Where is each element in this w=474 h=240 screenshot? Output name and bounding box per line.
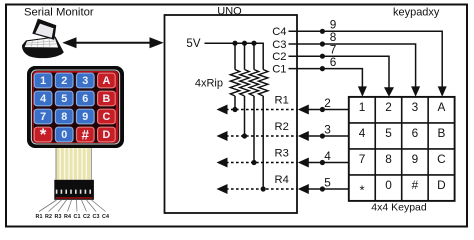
svg-text:6: 6 [82,93,88,105]
svg-text:C4: C4 [102,214,109,220]
svg-text:9: 9 [82,111,88,123]
svg-text:*: * [40,125,47,144]
svg-text:R1: R1 [275,95,289,107]
svg-text:5: 5 [61,93,67,105]
svg-text:C2: C2 [272,51,286,63]
svg-text:6: 6 [412,126,419,140]
svg-text:1: 1 [359,100,366,114]
svg-text:A: A [102,75,110,87]
svg-text:3: 3 [82,75,88,87]
svg-text:1: 1 [40,75,46,87]
svg-text:3: 3 [324,123,331,137]
svg-text:C: C [437,152,446,166]
svg-text:R4: R4 [64,214,71,220]
svg-text:4: 4 [324,149,331,163]
svg-text:4xRip: 4xRip [195,78,223,90]
svg-text:*: * [359,182,364,197]
svg-text:C: C [102,111,110,123]
svg-text:4: 4 [359,126,366,140]
svg-text:2: 2 [61,75,67,87]
svg-text:6: 6 [330,55,337,69]
svg-text:#: # [82,127,90,142]
svg-text:5V: 5V [186,38,200,50]
svg-text:C1: C1 [272,64,286,76]
svg-text:9: 9 [412,152,419,166]
svg-text:keypadxy: keypadxy [393,7,440,19]
svg-text:A: A [437,100,445,114]
svg-text:2: 2 [324,96,331,110]
svg-text:D: D [437,178,446,192]
svg-text:R2: R2 [275,121,289,133]
svg-text:3: 3 [412,100,419,114]
svg-text:0: 0 [385,178,392,192]
svg-text:7: 7 [40,111,46,123]
svg-text:C1: C1 [74,214,81,220]
svg-text:5: 5 [324,176,331,190]
svg-text:R3: R3 [55,214,62,220]
svg-text:R3: R3 [275,148,289,160]
svg-text:D: D [102,129,110,141]
svg-text:UNO: UNO [217,6,242,18]
svg-text:4: 4 [40,93,46,105]
svg-text:R1: R1 [36,214,43,220]
svg-text:#: # [412,178,419,192]
svg-text:Serial Monitor: Serial Monitor [24,7,94,19]
svg-text:B: B [437,126,445,140]
svg-text:B: B [102,93,110,105]
svg-text:R2: R2 [45,214,52,220]
svg-text:0: 0 [61,129,67,141]
svg-text:7: 7 [359,152,366,166]
svg-text:4x4 Keypad: 4x4 Keypad [371,201,427,213]
svg-text:R4: R4 [275,174,289,186]
svg-text:5: 5 [385,126,392,140]
svg-text:C4: C4 [272,26,286,38]
svg-text:2: 2 [385,100,392,114]
svg-text:C3: C3 [272,39,286,51]
svg-text:8: 8 [61,111,67,123]
svg-text:8: 8 [385,152,392,166]
svg-text:C2: C2 [83,214,90,220]
svg-text:C3: C3 [93,214,100,220]
